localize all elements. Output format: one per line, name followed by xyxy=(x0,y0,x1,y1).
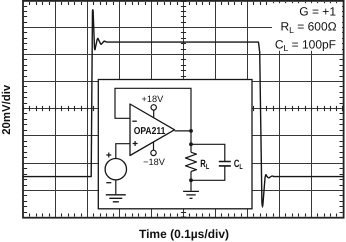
op-amp minus input symbol xyxy=(132,120,137,122)
capacitor CL plates xyxy=(219,162,231,166)
svg-text:−18V: −18V xyxy=(143,157,166,167)
svg-text:G = +1: G = +1 xyxy=(299,4,336,18)
wire feedback loop xyxy=(115,88,191,131)
inset circuit box xyxy=(98,80,252,209)
+18V supply terminal xyxy=(151,105,156,110)
op-amp U1 triangle xyxy=(130,104,175,156)
wire -18V lead xyxy=(153,142,155,150)
svg-text:Time (0.1µs/div): Time (0.1µs/div) xyxy=(139,227,229,241)
svg-text:RL = 600Ω: RL = 600Ω xyxy=(280,20,336,35)
wire output from op-amp xyxy=(175,131,191,144)
ground under RL xyxy=(183,191,199,198)
node dot output junction xyxy=(189,129,193,133)
source minus label xyxy=(106,182,111,184)
node dot load bottom junction xyxy=(189,178,193,182)
source plus label xyxy=(106,153,111,158)
resistor RL zigzag xyxy=(186,152,197,171)
voltage source VIN circle xyxy=(105,159,126,180)
wire RL to ground xyxy=(190,180,192,191)
-18V supply terminal xyxy=(151,150,156,155)
wire CL bottom branch xyxy=(191,166,225,180)
wire load branch vertical xyxy=(190,144,192,180)
svg-text:OPA211: OPA211 xyxy=(134,126,166,137)
wire +18V lead xyxy=(153,110,155,118)
op-amp plus input symbol xyxy=(133,141,138,146)
node dot load top junction xyxy=(189,142,193,146)
wire source to +input xyxy=(116,144,130,159)
annotation white backing xyxy=(272,3,342,51)
waveform trace xyxy=(23,10,344,207)
svg-text:+18V: +18V xyxy=(142,94,165,104)
wire CL top branch xyxy=(191,144,225,161)
wire source to ground xyxy=(115,180,117,194)
ground under source xyxy=(106,195,126,202)
svg-text:20mV/div: 20mV/div xyxy=(1,84,13,135)
